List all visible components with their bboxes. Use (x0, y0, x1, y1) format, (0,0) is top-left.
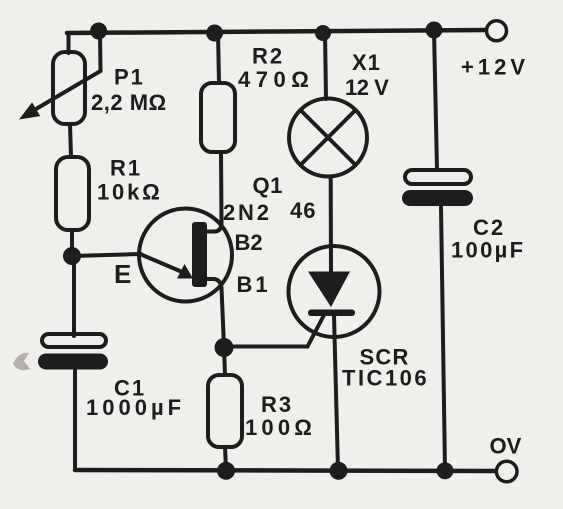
smudge artifact left margin (13, 353, 30, 370)
svg-text:Q1: Q1 (253, 173, 283, 198)
resistor R1 body (56, 157, 89, 230)
lamp X1 cross stroke 1 (300, 110, 355, 165)
capacitor C1 bottom plate (38, 354, 108, 370)
wire B2 lead (207, 230, 215, 234)
wire lamp to SCR anode (329, 177, 333, 273)
lamp X1 circle (289, 99, 367, 177)
transistor Q1 base bar (192, 222, 207, 287)
svg-text:R1: R1 (110, 156, 142, 181)
capacitor C1 top plate (42, 334, 106, 347)
node dot top rail C2 (426, 22, 443, 39)
wire B1 down to gate node (213, 279, 224, 347)
svg-text:100Ω: 100Ω (245, 415, 316, 440)
arrowhead emitter Q1 (177, 264, 193, 279)
terminal 0V (496, 461, 517, 482)
wire top rail +12V (67, 30, 486, 33)
wire emitter horizontal (72, 254, 141, 256)
svg-text:P1: P1 (114, 65, 145, 90)
wire SCR cathode down (334, 315, 338, 470)
capacitor C2 top plate (405, 170, 471, 184)
node dot bottom rail R3 (217, 462, 235, 480)
svg-text:TIC106: TIC106 (342, 366, 429, 391)
svg-text:10kΩ: 10kΩ (97, 180, 163, 205)
wire lamp top lead (325, 32, 326, 99)
transistor Q1 circle (139, 209, 232, 302)
svg-text:46: 46 (290, 198, 316, 223)
svg-text:C2: C2 (473, 215, 505, 240)
svg-text:2N2: 2N2 (223, 200, 272, 225)
wire P1 wiper diagonal (36, 32, 101, 109)
wire P1 top lead (67, 33, 71, 53)
wire gate run (224, 316, 324, 347)
wire bottom rail 0V (75, 470, 497, 471)
wire R3 bottom lead (225, 447, 226, 470)
SCR triangle (308, 272, 350, 308)
svg-text:470Ω: 470Ω (238, 67, 314, 92)
wire C2 bottom lead (441, 207, 445, 470)
resistor R3 body (208, 375, 242, 447)
svg-text:100µF: 100µF (451, 238, 525, 263)
node dot bottom rail C2 (437, 462, 454, 479)
terminal +12V (487, 21, 507, 41)
svg-text:X1: X1 (352, 50, 381, 75)
svg-text:12 V: 12 V (345, 75, 389, 100)
lamp X1 cross stroke 2 (300, 110, 355, 165)
wire R3 top lead (224, 347, 225, 375)
potentiometer P1 body (53, 52, 85, 124)
svg-text:B1: B1 (237, 272, 271, 297)
svg-text:1000µF: 1000µF (86, 395, 185, 420)
node dot bottom rail SCR (330, 462, 348, 480)
wire C2 top lead (434, 30, 437, 170)
svg-text:E: E (114, 259, 131, 289)
wire R2 to B2 (214, 152, 222, 232)
SCR cathode bar (308, 310, 355, 317)
wire R1 to node E (70, 230, 74, 256)
wire P1 to R1 (70, 124, 71, 157)
svg-text:R2: R2 (252, 44, 284, 69)
svg-text:R3: R3 (261, 392, 293, 417)
node dot B1 gate junction (215, 338, 234, 357)
wire R2 top lead (218, 32, 219, 83)
svg-text:2,2 MΩ: 2,2 MΩ (91, 90, 167, 115)
wire C1 to bottom rail (73, 368, 77, 469)
resistor R2 body (201, 83, 235, 152)
SCR U1 circle (289, 246, 380, 337)
wire node E down to C1 (72, 256, 76, 336)
node dot E junction (63, 247, 81, 265)
svg-text:+12V: +12V (461, 55, 529, 80)
node dot top rail P1 wiper (90, 23, 107, 40)
arrowhead P1 wiper (19, 102, 40, 119)
node dot top rail R2 (206, 25, 223, 42)
capacitor C2 bottom plate (402, 190, 473, 206)
wire emitter inside Q1 (140, 254, 181, 272)
svg-text:OV: OV (490, 434, 522, 459)
node dot top rail lamp (315, 25, 331, 41)
svg-text:B2: B2 (235, 230, 263, 255)
wire B1 lead (207, 277, 214, 281)
